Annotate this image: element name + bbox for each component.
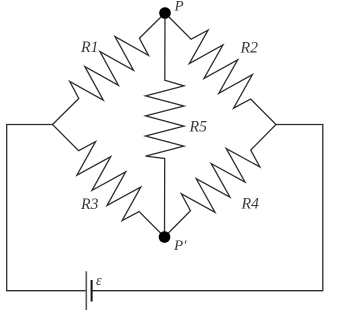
svg-text:ε: ε — [96, 273, 102, 289]
svg-text:R5: R5 — [189, 119, 208, 136]
wire left rail: left node to left edge, down, to battery long plate — [7, 125, 87, 291]
resistor R2 — [165, 13, 276, 125]
svg-text:P′: P′ — [173, 238, 187, 254]
wire right rail: right node to right edge, down, to battery short plate — [92, 125, 323, 291]
battery V1 long plate (+) — [85, 271, 87, 310]
svg-text:P: P — [174, 0, 184, 15]
resistor R5 — [146, 13, 185, 237]
svg-text:R1: R1 — [80, 39, 98, 56]
svg-text:R4: R4 — [241, 196, 260, 213]
battery V1 short plate (-) — [91, 280, 93, 302]
node P' dot — [159, 231, 171, 243]
resistor R1 — [53, 13, 166, 125]
svg-text:R3: R3 — [80, 196, 99, 213]
resistor R4 — [165, 125, 277, 238]
node P dot — [159, 7, 171, 19]
resistor R3 — [53, 125, 165, 238]
svg-text:R2: R2 — [240, 39, 259, 56]
